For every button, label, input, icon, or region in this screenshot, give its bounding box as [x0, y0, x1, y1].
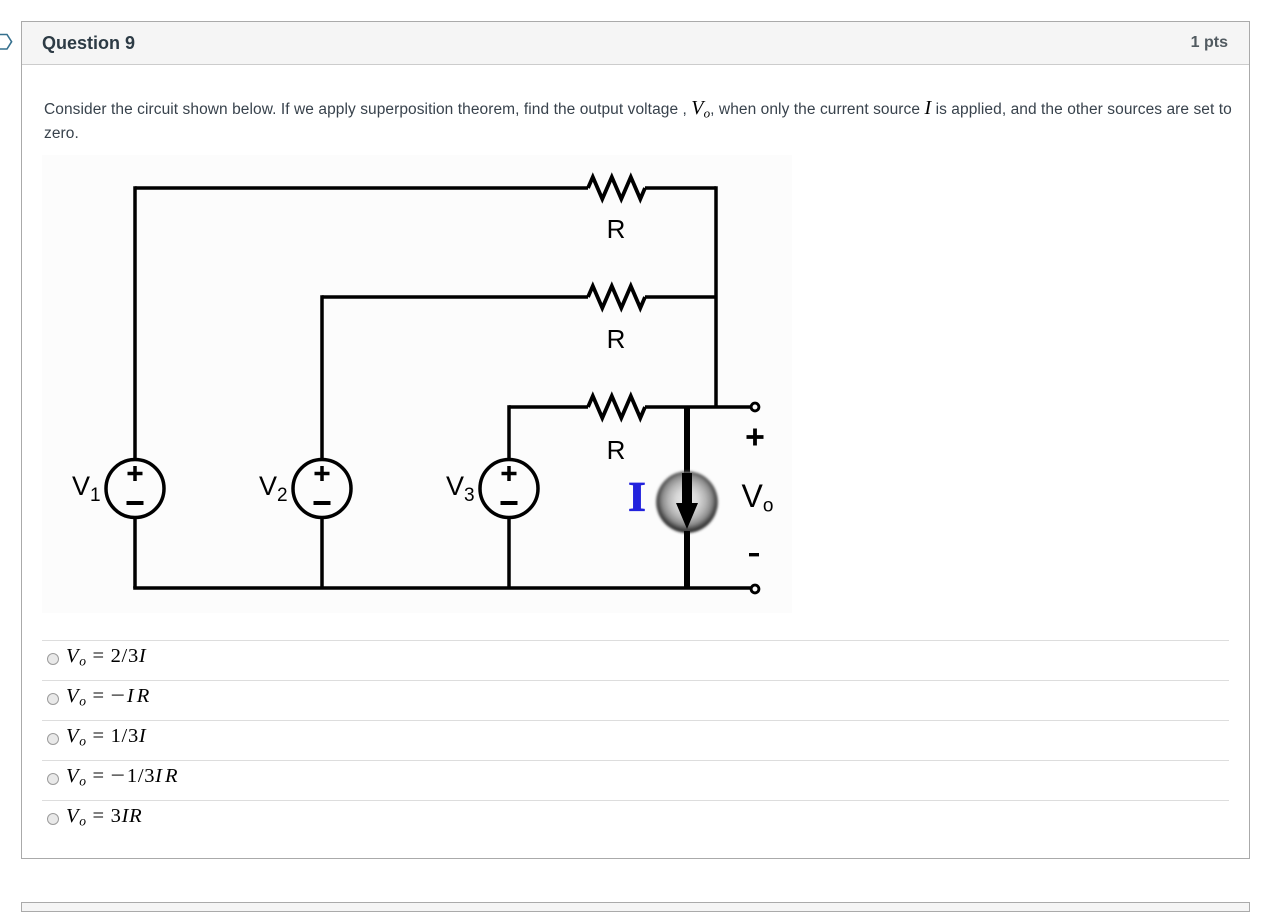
option 2 math: [66, 685, 152, 708]
plus label: [747, 429, 764, 446]
next question box top: [21, 902, 1250, 912]
option 5 separator: [42, 800, 1229, 801]
option 1 separator: [42, 640, 1229, 641]
svg-text:R: R: [607, 435, 626, 465]
option 5 radio: [47, 813, 60, 826]
wire: V3 vertical bottom: [507, 518, 511, 589]
wire: bottom rail: [133, 586, 755, 590]
wire: V2 vertical bottom: [320, 518, 324, 589]
wire: current source bottom stub: [684, 531, 690, 588]
option 4 math: [66, 765, 181, 788]
wire: V1 left vertical top: [133, 186, 137, 459]
option 3 math: [66, 725, 146, 748]
wire: right vertical rail: [714, 186, 718, 407]
output terminal bottom: [751, 585, 759, 593]
voltage source V1: [106, 460, 164, 518]
output terminal top: [751, 403, 759, 411]
option 1 radio: [47, 653, 60, 666]
option 4 radio: [47, 773, 60, 786]
wire: current source top stub: [684, 407, 690, 473]
minus label: [749, 553, 759, 556]
wire: V2 rail left segment: [322, 295, 588, 299]
wire: V2 vertical top: [320, 295, 324, 459]
svg-text:I: I: [628, 474, 646, 521]
image background: [42, 155, 792, 613]
question text: [44, 97, 1236, 145]
option 4 separator: [42, 760, 1229, 761]
voltage source V2: [293, 460, 351, 518]
wire: top rail right segment: [645, 186, 716, 190]
wire: V1 vertical bottom: [133, 518, 137, 589]
wire: top rail left segment: [135, 186, 588, 190]
wire: V3 rail right segment to output terminal: [645, 405, 751, 409]
voltage source V3: [480, 460, 538, 518]
current source label I: [628, 474, 646, 521]
wire: V2 rail right segment: [645, 295, 716, 299]
option 1 math: [66, 645, 146, 668]
wire: V3 vertical top: [507, 405, 511, 459]
resistor R2: [588, 286, 645, 308]
option 2 separator: [42, 680, 1229, 681]
current source arrow: [682, 473, 692, 505]
flag marker icon: [0, 33, 16, 51]
option 5 math: [66, 805, 142, 828]
option 2 radio: [47, 693, 60, 706]
option 3 radio: [47, 733, 60, 746]
svg-text:R: R: [607, 214, 626, 244]
wire: V3 rail left segment: [509, 405, 588, 409]
resistor R1: [588, 177, 645, 199]
resistor R3: [588, 396, 645, 418]
svg-text:R: R: [607, 324, 626, 354]
circuit schematic image: [42, 155, 792, 613]
option 3 separator: [42, 720, 1229, 721]
